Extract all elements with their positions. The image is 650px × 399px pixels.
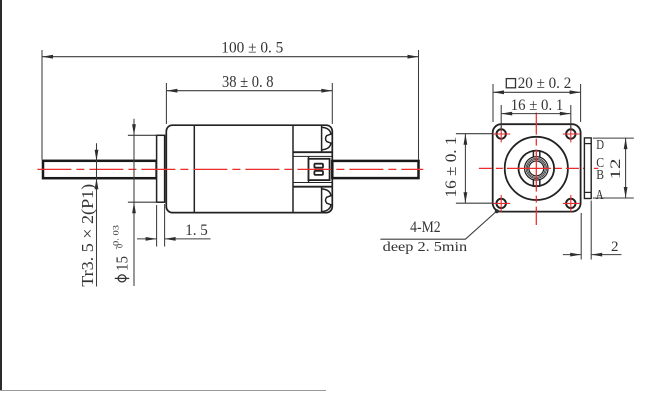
svg-text:16 ± 0. 1: 16 ± 0. 1 [443,137,460,198]
dimension 1.5 line [137,238,157,240]
dimension sq20 line [493,91,581,93]
rear endbell parting line [292,125,294,212]
pilot boss circle [505,137,568,200]
thread outer circle [525,157,549,181]
svg-text:38 ± 0. 8: 38 ± 0. 8 [222,72,274,91]
dimension Tr3.5 leader line [96,143,98,286]
dimension 12 ext bottom [593,197,634,199]
dimension 12 line [625,138,627,198]
connector channel bottom lines [293,182,332,184]
dimension 16 left ext top [456,133,494,135]
mounting hole top-left [497,129,506,138]
thread inner circle [527,159,545,177]
dimension 38 ext line right [331,83,333,124]
svg-text:15: 15 [113,256,132,271]
svg-text:12: 12 [608,159,624,180]
dimension phi15 line [133,119,135,286]
svg-text:deep 2. 5min: deep 2. 5min [383,240,468,255]
dimension 2 line left [563,254,581,256]
label 12 rotated [608,159,624,180]
dimension 100 line [42,56,419,58]
dimension sq20 ext left [492,84,494,122]
dimension 38 ext line left [165,83,167,124]
label 16±0.1 left rotated [443,137,460,198]
svg-text:D: D [596,138,604,153]
dimension 2 ext left [580,213,582,260]
centerline front horizontal [479,167,598,169]
thread middle circle [526,158,546,178]
top spring clip [322,125,331,152]
label sq20±0.2 [506,79,515,88]
svg-text:1. 5: 1. 5 [185,222,208,239]
rear shaft [332,161,418,178]
dimension 16 top ext right [570,105,572,131]
dimension 16 top line [501,113,571,115]
mounting hole bottom-left [497,199,506,208]
shaft bore circle [529,161,544,176]
motor body [166,125,332,212]
dimension 16 left ext bottom [456,202,494,204]
keyway slot lines [533,151,539,186]
svg-text:4-M2: 4-M2 [410,219,441,236]
dimension 38 line [166,90,332,92]
svg-text:Tr3. 5 × 2(P1): Tr3. 5 × 2(P1) [78,184,97,287]
centerline side view [37,168,423,170]
svg-text:B: B [596,168,604,183]
dimension 1.5 ext lines [156,205,158,247]
label phi15 [118,275,126,282]
connector channel top lines [293,151,332,153]
connector plug left edge tick [308,156,310,182]
dimension phi15 ext bottom [128,201,157,203]
dimension 16 top ext left [500,105,502,131]
leadscrew shaft [43,161,157,178]
bottom spring clip [322,187,331,213]
mounting hole bottom-right [566,199,575,208]
dimension 100 ext line right [418,50,420,160]
leader 4-M2 [380,211,496,239]
bearing boss circle [519,151,555,187]
drawing frame bottom border [0,390,326,392]
dimension sq20 ext right [580,84,582,122]
mounting hole top-right [566,129,575,138]
front boss collar [157,135,165,202]
front flange square [493,124,581,211]
label Tr3.5x2(P1) [78,184,97,287]
svg-text:20 ± 0. 2: 20 ± 0. 2 [518,75,572,92]
svg-text:-0. 03: -0. 03 [112,225,121,250]
svg-text:100 ± 0. 5: 100 ± 0. 5 [221,40,283,57]
svg-text:A: A [596,188,604,203]
svg-text:16 ± 0. 1: 16 ± 0. 1 [511,97,564,114]
dimension 16 left line [464,134,466,204]
dimension 12 ext top [593,137,634,139]
connector block front view [584,138,591,199]
plug slot bottom [314,171,323,175]
drawing frame left border [0,0,2,391]
dimension phi15 ext top [128,134,157,136]
dimension 2 line right [591,254,621,256]
dimension 100 ext line left [41,50,43,160]
plug slot top [314,164,323,168]
connector plug [309,159,330,180]
dimension 2 ext right [590,201,592,260]
svg-text:2: 2 [611,239,619,255]
centerline front vertical [535,113,537,225]
front endbell parting line [193,125,195,212]
